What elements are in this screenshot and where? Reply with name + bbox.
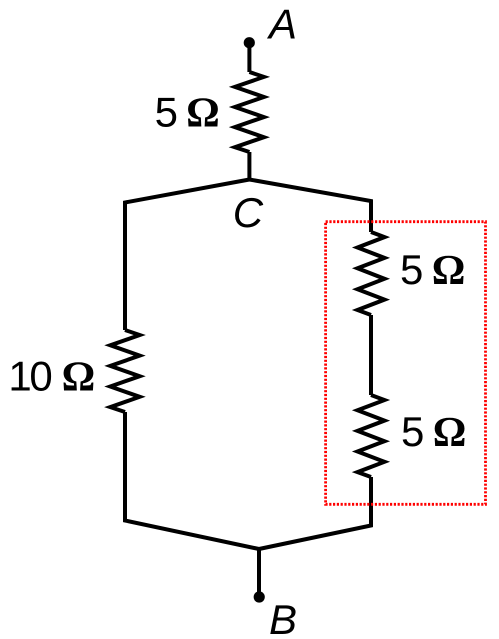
svg-text:5: 5	[155, 89, 178, 136]
wire node C to left branch	[125, 180, 249, 331]
svg-text:Ω: Ω	[432, 248, 466, 294]
wire left branch to node B junction	[125, 412, 259, 549]
wire between right resistors	[369, 315, 373, 395]
wire right branch to node B junction	[259, 477, 371, 549]
svg-text:5: 5	[401, 408, 424, 455]
resistor 5 ohm right upper	[358, 232, 385, 315]
terminal A	[244, 37, 255, 48]
wire node C to right branch	[249, 180, 371, 233]
svg-text:A: A	[266, 1, 297, 48]
wire R1 to node C	[247, 152, 251, 180]
svg-text:Ω: Ω	[186, 91, 220, 137]
svg-text:Ω: Ω	[433, 410, 467, 456]
svg-text:5: 5	[400, 246, 423, 293]
svg-text:C: C	[233, 189, 264, 236]
wire A to R1	[247, 43, 251, 72]
resistor 5 ohm top	[235, 72, 264, 152]
resistor 10 ohm left	[110, 330, 139, 412]
terminal B	[254, 591, 265, 602]
svg-text:10: 10	[8, 353, 51, 400]
wire node B junction to terminal B	[257, 549, 261, 597]
svg-text:B: B	[269, 596, 297, 639]
highlight box (red dotted) around series resistors	[326, 222, 486, 505]
svg-text:Ω: Ω	[62, 355, 96, 401]
resistor 5 ohm right lower	[358, 395, 385, 477]
